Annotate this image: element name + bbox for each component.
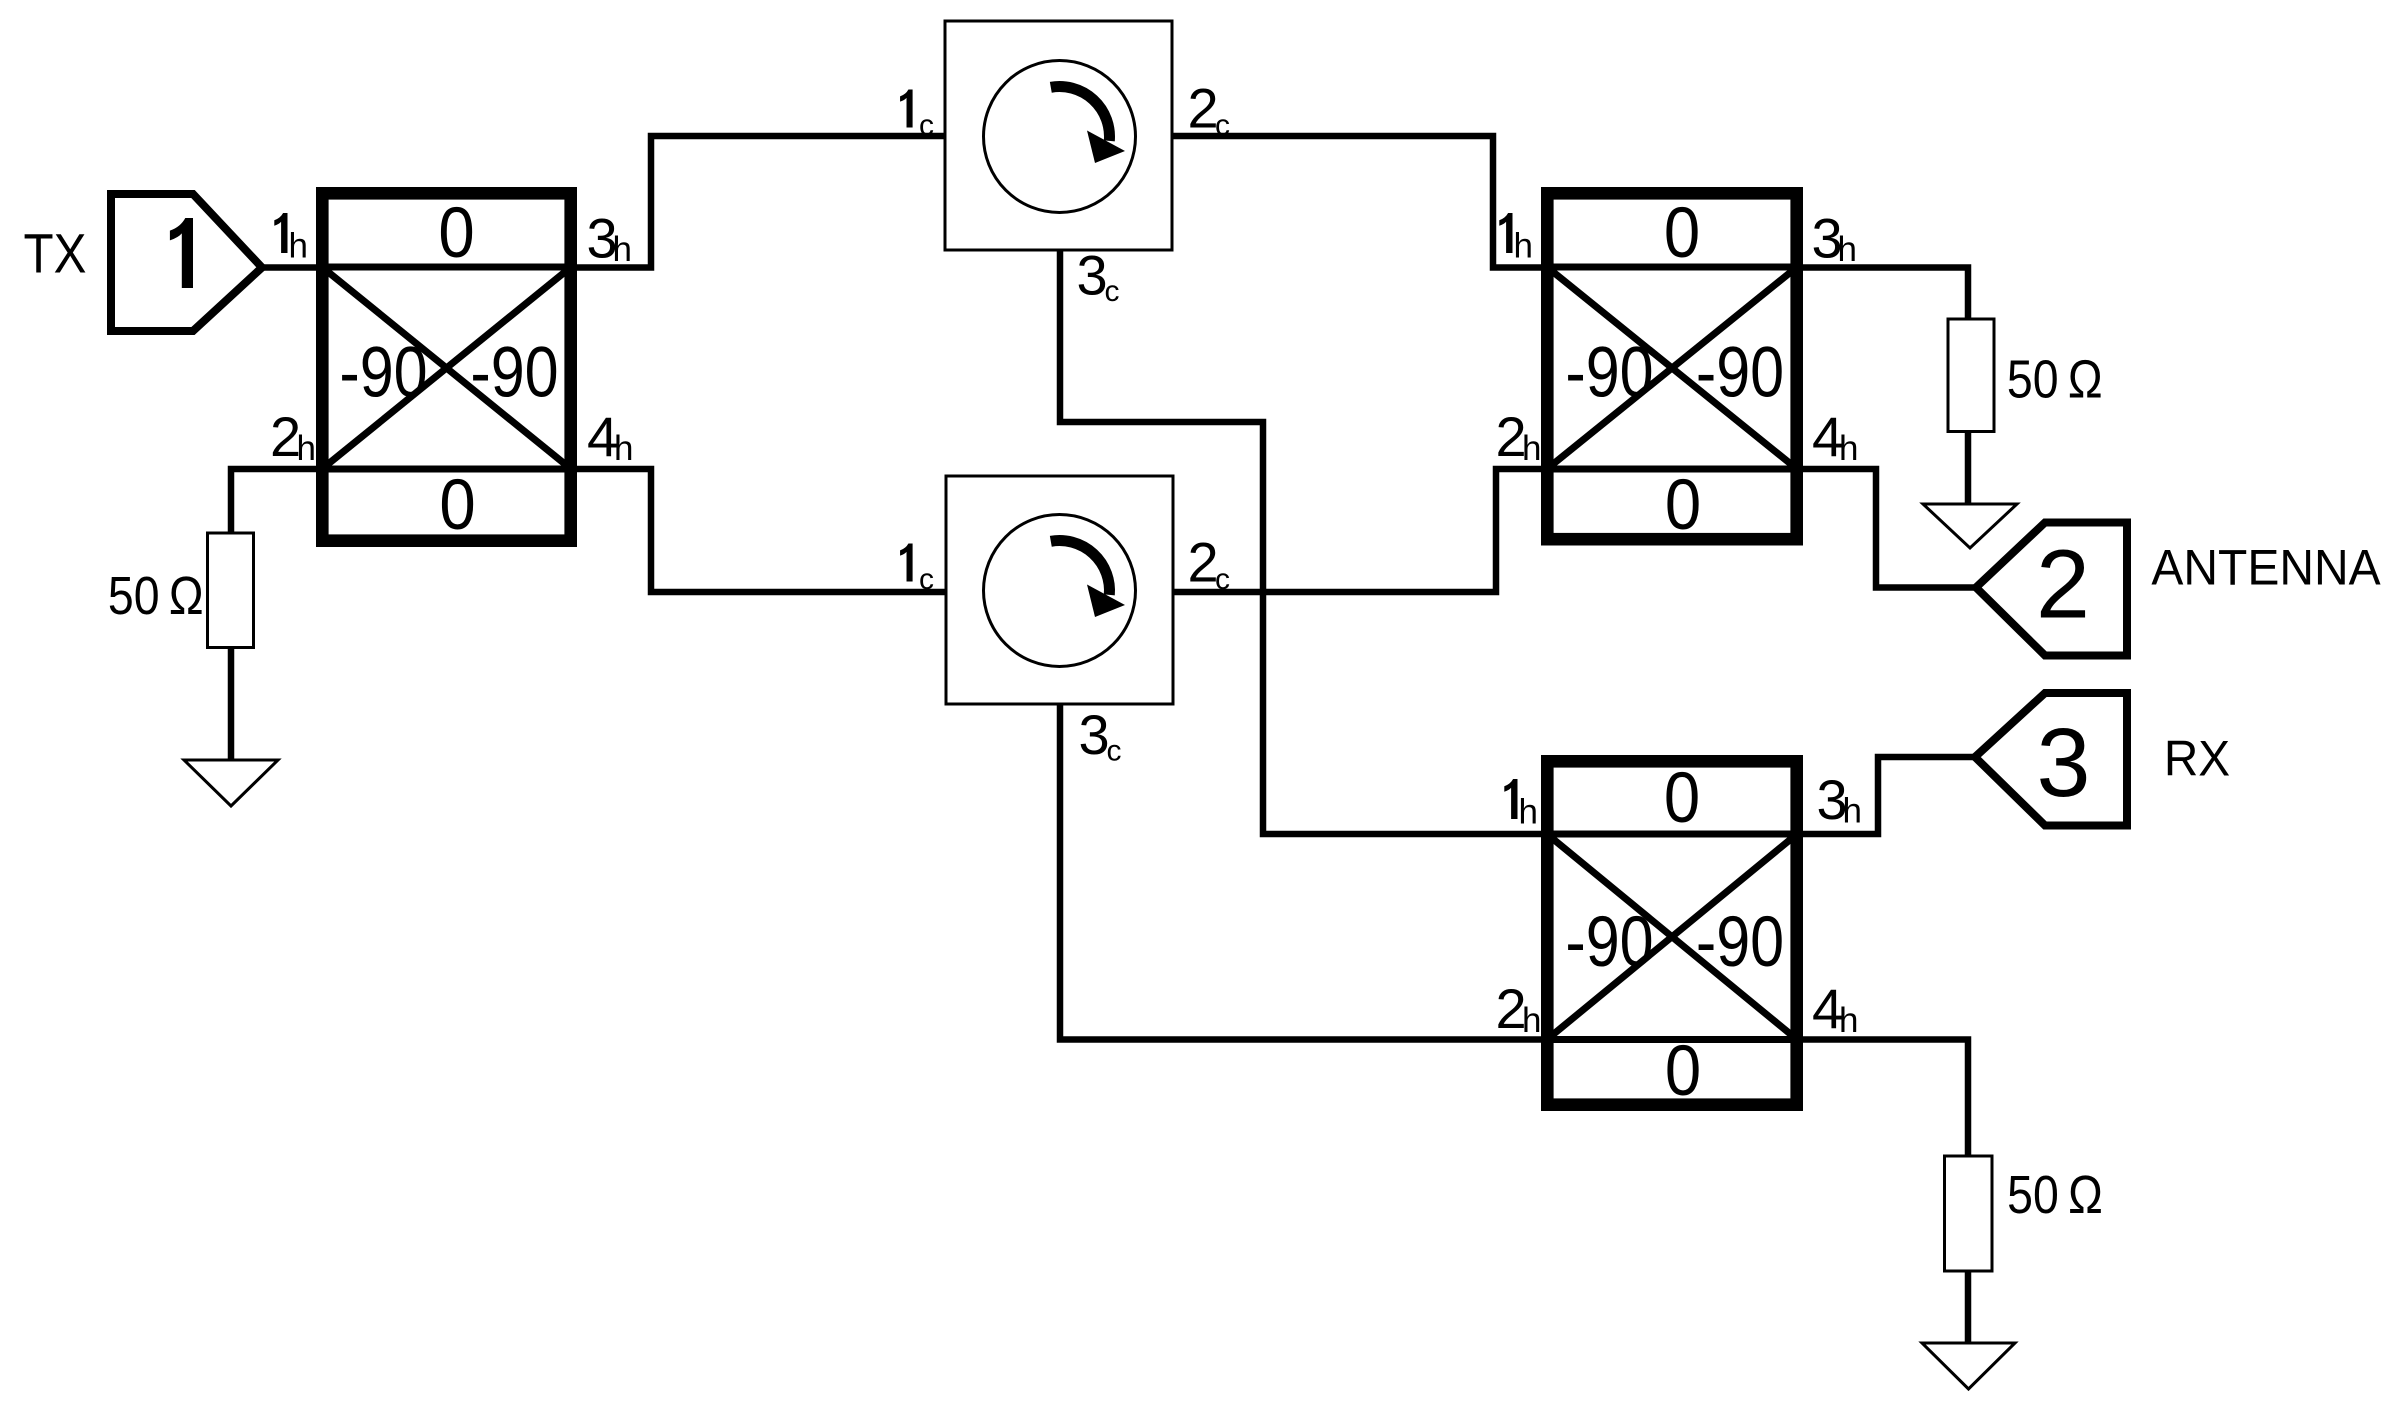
U1 rotation arrow (1051, 87, 1110, 141)
wire U2 3c to H3 2h (1060, 704, 1541, 1040)
svg-text:0: 0 (1665, 1032, 1701, 1111)
svg-text:c: c (919, 563, 934, 596)
svg-text:h: h (614, 429, 633, 468)
svg-text:2: 2 (1188, 531, 1219, 594)
wire U1 2c to H2 1h (1172, 136, 1541, 268)
wire H1 3h to circulator U1 1c (577, 136, 945, 268)
wire H2 4h to port 2 (1803, 469, 1976, 588)
svg-text:3: 3 (1079, 703, 1110, 766)
wire H2 3h to resistor R2 (1803, 268, 1968, 320)
U2 circle (984, 515, 1136, 667)
U2 pin 1c (900, 544, 913, 582)
svg-text:50 Ω: 50 Ω (2007, 1164, 2103, 1225)
H2 diagonal 2 (1547, 267, 1797, 469)
H3 pin 1h (1504, 779, 1517, 819)
H1 diagonal 1 (322, 267, 571, 469)
hybrid coupler H1 box (322, 193, 570, 540)
wire U1 3c to H3 1h (1060, 250, 1541, 834)
svg-text:50 Ω: 50 Ω (108, 565, 204, 626)
U2 rotation arrow (1051, 541, 1110, 595)
H1 diagonal 2 (322, 267, 571, 469)
U1 pin 1c (900, 90, 913, 128)
svg-text:h: h (1838, 230, 1857, 269)
svg-text:ANTENNA: ANTENNA (2151, 541, 2381, 596)
port 1 (TX) (111, 194, 262, 331)
svg-text:h: h (1843, 792, 1862, 831)
H2 diagonal 1 (1547, 267, 1797, 469)
wire H3 4h to resistor R3 (1803, 1040, 1968, 1157)
port 1 number (170, 218, 193, 288)
svg-text:TX: TX (24, 222, 87, 285)
svg-text:c: c (919, 109, 934, 142)
svg-text:-90: -90 (1565, 903, 1653, 982)
svg-text:-90: -90 (339, 333, 427, 412)
svg-text:h: h (1514, 227, 1533, 266)
port 2 (ANTENNA) (1976, 523, 2127, 656)
U1 circle (984, 61, 1136, 213)
ground G3 (1922, 1343, 2015, 1389)
hybrid coupler H2 box (1547, 193, 1796, 539)
wire H1 2h to resistor R1 (231, 469, 316, 533)
svg-text:50 Ω: 50 Ω (2007, 348, 2103, 409)
svg-text:h: h (1839, 429, 1858, 468)
svg-text:0: 0 (438, 194, 474, 273)
svg-text:c: c (1105, 275, 1120, 308)
resistor R2 (1948, 319, 1994, 432)
svg-text:3: 3 (1077, 244, 1108, 307)
resistor R3 (1945, 1156, 1993, 1271)
svg-text:h: h (1522, 429, 1541, 468)
svg-text:0: 0 (1665, 466, 1701, 545)
ground G1 (184, 760, 278, 806)
ground G2 (1923, 504, 2017, 548)
H3 diagonal 2 (1547, 834, 1797, 1040)
circulator U1 box (945, 21, 1172, 250)
port 3 (RX) (1975, 693, 2127, 826)
H3 diagonal 1 (1547, 834, 1797, 1040)
H3 inner line 1h-3h (1541, 831, 1803, 838)
svg-text:-90: -90 (470, 333, 558, 412)
resistor R1 (208, 533, 254, 648)
H2 inner line 1h-3h (1541, 264, 1803, 271)
wire R1 to ground (228, 648, 235, 761)
wire H1 4h to circulator U2 1c (577, 469, 946, 592)
wire R3 to ground (1965, 1271, 1972, 1343)
wire R2 to ground (1965, 432, 1972, 505)
svg-text:0: 0 (1664, 759, 1700, 838)
svg-text:h: h (1839, 1001, 1858, 1040)
wire port1 to H1 (260, 264, 322, 271)
svg-text:0: 0 (1664, 194, 1700, 273)
svg-text:h: h (297, 429, 316, 468)
H1 pin 1h (274, 213, 287, 253)
svg-text:2: 2 (2036, 530, 2090, 639)
H1 inner line 1h-3h (316, 264, 577, 271)
svg-text:-90: -90 (1696, 903, 1784, 982)
svg-text:h: h (613, 230, 632, 269)
H2 inner line 2h-4h (1541, 466, 1803, 473)
svg-text:-90: -90 (1696, 333, 1784, 412)
hybrid coupler H3 box (1547, 761, 1796, 1104)
svg-text:RX: RX (2164, 732, 2230, 787)
svg-text:3: 3 (2037, 708, 2091, 817)
circulator U2 box (946, 476, 1173, 704)
svg-text:h: h (1519, 793, 1538, 832)
svg-text:2: 2 (1188, 77, 1219, 140)
svg-text:-90: -90 (1565, 333, 1653, 412)
svg-text:c: c (1107, 735, 1122, 768)
svg-text:0: 0 (439, 466, 475, 545)
H2 pin 1h (1499, 213, 1512, 253)
wire U2 2c to H2 2h (1173, 469, 1541, 592)
H1 inner line 2h-4h (316, 466, 577, 473)
svg-text:h: h (289, 227, 308, 266)
H3 inner line 2h-4h (1541, 1036, 1803, 1043)
svg-text:h: h (1522, 1001, 1541, 1040)
wire port 3 to H3 3h (1803, 757, 1975, 834)
